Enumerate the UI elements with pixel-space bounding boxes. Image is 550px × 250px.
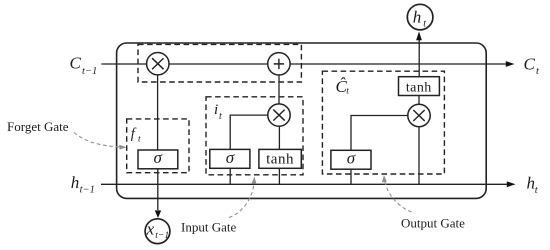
wire: input multiply down to tanh box xyxy=(278,126,280,149)
svg-text:tanh: tanh xyxy=(406,80,432,95)
cell body (LSTM block rounded rectangle) xyxy=(117,43,487,198)
svg-text:h: h xyxy=(71,173,80,192)
node x_{t-1} (bottom circle) xyxy=(145,219,170,244)
callout curve to input gate xyxy=(229,183,254,218)
wire: input tanh down to h line xyxy=(278,168,280,184)
svg-text:C: C xyxy=(524,55,536,74)
wire: add node down to input multiply xyxy=(278,64,280,110)
wire: input sigma down to h line xyxy=(229,168,231,184)
wire: forget multiply down to sigma xyxy=(157,64,159,150)
callout curve to forget gate xyxy=(74,133,120,148)
svg-text:tanh: tanh xyxy=(266,151,294,167)
gate box: top dashed region around multiply and add xyxy=(138,44,301,82)
svg-text:t: t xyxy=(346,87,349,97)
wire: output sigma down to h line xyxy=(350,169,352,184)
svg-text:Forget Gate: Forget Gate xyxy=(7,119,69,134)
sigma box (input gate) xyxy=(210,149,250,168)
svg-text:i: i xyxy=(214,102,218,118)
svg-text:t: t xyxy=(535,185,539,196)
wire: output sigma up and right to output multiply xyxy=(351,116,408,151)
arrowhead into x_{t-1} xyxy=(155,210,161,218)
svg-text:σ: σ xyxy=(226,148,235,167)
svg-text:t: t xyxy=(219,111,222,122)
tanh box (input gate) xyxy=(259,149,301,168)
svg-text:f: f xyxy=(131,126,137,142)
wire: input sigma up and right to input multiply xyxy=(230,115,268,149)
arrowhead h_t xyxy=(507,181,516,187)
svg-text:C: C xyxy=(70,54,82,73)
svg-text:Input Gate: Input Gate xyxy=(181,220,236,235)
svg-text:t−1: t−1 xyxy=(80,185,95,196)
svg-text:t−1: t−1 xyxy=(82,66,97,77)
svg-text:x: x xyxy=(146,220,155,239)
multiply node (output) xyxy=(408,104,430,126)
svg-text:h: h xyxy=(527,174,536,193)
wire: cell state line C_{t-1} to C_t xyxy=(101,63,506,65)
wire: tanh box up through C line to h_t circle xyxy=(418,40,420,77)
svg-text:t−1: t−1 xyxy=(155,231,169,241)
svg-text:t: t xyxy=(423,19,426,30)
multiply node (forget) xyxy=(147,53,169,75)
wire: hidden state line h_{t-1} to h_t xyxy=(101,183,508,185)
arrowhead into h_t circle xyxy=(416,32,422,41)
wire: output multiply down to h line xyxy=(418,127,420,185)
svg-text:t: t xyxy=(536,66,540,77)
tanh box (cell output) xyxy=(399,77,440,96)
svg-text:σ: σ xyxy=(154,148,163,167)
svg-text:σ: σ xyxy=(347,149,356,168)
gate box: input gate dashed region xyxy=(206,97,303,175)
multiply node (input) xyxy=(268,104,290,126)
arrowhead C_t xyxy=(506,61,515,67)
gate box: output gate dashed region xyxy=(322,71,444,174)
wire: forget sigma down to x_{t-1} with arrowhead xyxy=(157,169,159,210)
svg-text:t: t xyxy=(138,134,141,144)
gate box: forget gate dashed region xyxy=(127,119,189,173)
sigma box (output gate) xyxy=(331,150,371,169)
callout curve to output gate xyxy=(385,181,412,212)
wire: output multiply up to tanh box xyxy=(418,96,420,105)
node h_t (top circle) xyxy=(407,4,433,30)
sigma box (forget gate) xyxy=(138,150,178,169)
add node xyxy=(268,53,290,75)
svg-text:h: h xyxy=(413,8,422,27)
svg-text:Output Gate: Output Gate xyxy=(401,216,465,231)
